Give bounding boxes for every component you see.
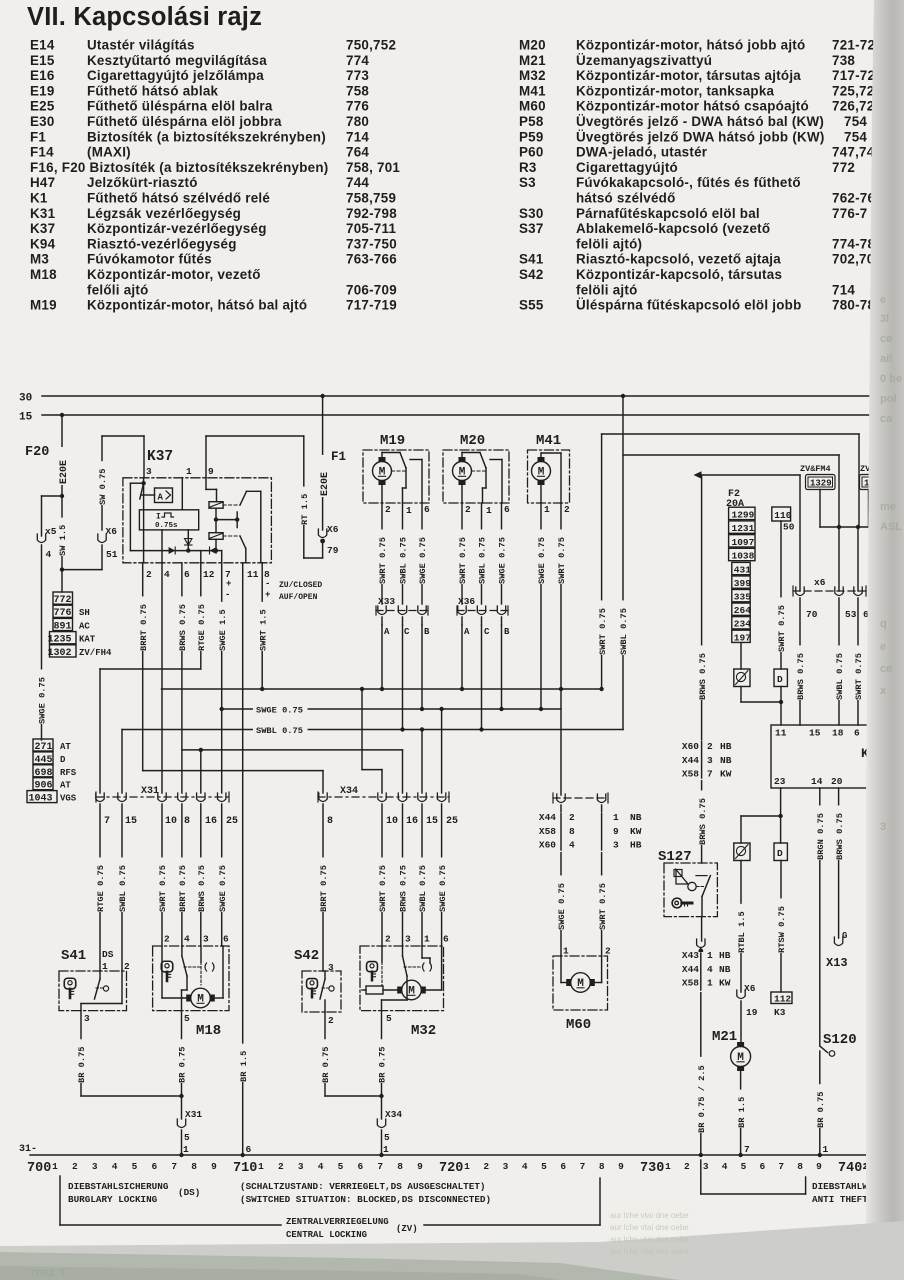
tailgate lock motor M60 — [553, 946, 611, 1034]
svg-text:E30: E30 — [30, 114, 55, 129]
wire link SWBL to K94 pin18 — [618, 396, 840, 730]
svg-text:SWGE 0.75: SWGE 0.75 — [256, 706, 303, 716]
svg-text:X34: X34 — [340, 786, 358, 797]
lock motor M19 — [363, 433, 429, 503]
svg-text:7: 7 — [580, 1161, 586, 1172]
svg-text:K1: K1 — [30, 191, 48, 206]
wire SWRT 0.75 X34 pin10 to M32 pin2 — [377, 804, 389, 946]
pin labels M20 — [465, 504, 510, 516]
svg-text:BRWS 0.75: BRWS 0.75 — [178, 604, 188, 651]
svg-text:8: 8 — [397, 1161, 403, 1172]
svg-text:K31: K31 — [30, 206, 56, 221]
riser X31 pin16 — [200, 750, 202, 793]
svg-text:H47: H47 — [30, 175, 55, 190]
wire SWGE 0.75 X31 pin25 to M18 pin6 — [216, 804, 228, 946]
svg-text:Légzsák vezérlőegység: Légzsák vezérlőegység — [87, 206, 241, 221]
wire X6-51 to K37 pin 3 — [97, 436, 145, 530]
svg-text:9: 9 — [208, 466, 214, 477]
svg-text:S37: S37 — [519, 221, 544, 236]
svg-text:BRWS 0.75: BRWS 0.75 — [796, 653, 806, 700]
svg-text:X58: X58 — [539, 826, 556, 837]
svg-text:112: 112 — [774, 994, 791, 1005]
svg-text:ZU/CLOSED: ZU/CLOSED — [279, 581, 322, 590]
svg-text:e: e — [880, 641, 886, 653]
svg-text:6: 6 — [223, 934, 229, 945]
svg-text:D: D — [777, 848, 783, 859]
svg-text:12: 12 — [203, 569, 215, 580]
switch S120 — [814, 1032, 856, 1155]
svg-text:3: 3 — [880, 821, 886, 833]
svg-text:DS: DS — [102, 949, 114, 960]
svg-text:(MAXI): (MAXI) — [87, 145, 131, 160]
wire SWRT 0.75 to M60 pin2 — [596, 875, 608, 930]
svg-text:714: 714 — [832, 282, 855, 297]
svg-text:felőli ajtó: felőli ajtó — [87, 282, 149, 297]
svg-text:Párnafűtéskapcsoló elöl bal: Párnafűtéskapcsoló elöl bal — [576, 206, 760, 221]
svg-text:DWA-jeladó, utastér: DWA-jeladó, utastér — [576, 145, 708, 160]
svg-text:S42: S42 — [519, 267, 544, 282]
fuel pump M21 — [712, 1029, 751, 1155]
svg-text:6: 6 — [560, 1161, 566, 1172]
svg-text:264: 264 — [734, 605, 751, 616]
svg-text:740: 740 — [838, 1161, 862, 1176]
bus 30 — [19, 393, 872, 405]
code box 112 K3 — [771, 992, 792, 1018]
svg-text:7: 7 — [744, 1144, 750, 1155]
svg-text:E20E: E20E — [59, 460, 70, 484]
svg-text:X58: X58 — [682, 978, 699, 989]
svg-text:M60: M60 — [566, 1017, 591, 1033]
svg-text:AUF/OPEN: AUF/OPEN — [279, 593, 318, 602]
junction line to X6 — [820, 525, 872, 591]
svg-text:RTGE 0.75: RTGE 0.75 — [197, 604, 207, 651]
svg-text:M21: M21 — [712, 1029, 737, 1045]
svg-text:750,752: 750,752 — [346, 38, 396, 53]
svg-text:1: 1 — [383, 1144, 389, 1155]
svg-text:B: B — [504, 627, 510, 637]
svg-text:7: 7 — [171, 1161, 177, 1172]
wire BR 0.75 M18 pin5 to X31 pin5 — [176, 1011, 202, 1158]
svg-text:Cigarettagyújtó jelzőlámpa: Cigarettagyújtó jelzőlámpa — [87, 68, 264, 83]
svg-text:Fűthető hátsó szélvédő relé: Fűthető hátsó szélvédő relé — [87, 191, 270, 206]
connector X34 — [318, 786, 458, 827]
svg-text:1: 1 — [823, 1144, 829, 1155]
svg-text:23: 23 — [774, 776, 786, 787]
svg-text:+: + — [265, 590, 270, 600]
svg-text:DIEBSTAHLW≈: DIEBSTAHLW≈ — [812, 1181, 874, 1192]
ghost print-through text right edge — [880, 294, 902, 833]
svg-text:763-766: 763-766 — [346, 252, 397, 267]
svg-text:5: 5 — [338, 1161, 344, 1172]
svg-text:774-78: 774-78 — [832, 236, 875, 251]
svg-text:3: 3 — [146, 466, 152, 477]
svg-text:3l: 3l — [880, 313, 889, 325]
svg-text:SW 0.75: SW 0.75 — [98, 469, 108, 506]
labels ZU/CLOSED AUF/OPEN — [225, 579, 322, 602]
svg-text:2: 2 — [124, 961, 130, 972]
svg-text:1: 1 — [406, 505, 412, 516]
svg-text:SWBL 0.75: SWBL 0.75 — [256, 726, 303, 736]
svg-text:SWGE 0.75: SWGE 0.75 — [557, 883, 567, 930]
svg-text:2: 2 — [465, 504, 471, 515]
ground rail 31 — [19, 1144, 904, 1157]
svg-text:F16, F20 Biztosíték (a biztosí: F16, F20 Biztosíték (a biztosítékszekrén… — [30, 160, 329, 175]
svg-text:3: 3 — [405, 934, 411, 945]
svg-text:CENTRAL LOCKING: CENTRAL LOCKING — [286, 1230, 367, 1240]
svg-text:RTGE 0.75: RTGE 0.75 — [96, 865, 106, 912]
svg-text:x5: x5 — [45, 526, 57, 537]
svg-text:754: 754 — [844, 129, 867, 144]
svg-text:BR 0.75: BR 0.75 — [378, 1047, 388, 1084]
svg-text:6: 6 — [854, 728, 860, 739]
svg-text:F1: F1 — [30, 129, 46, 144]
label switched situation — [240, 1181, 491, 1205]
diode box to M21 — [734, 843, 750, 861]
svg-text:Kesztyűtartó megvilágítása: Kesztyűtartó megvilágítása — [87, 53, 267, 68]
wire SWGE 0.75 X34 pin25 to M32 pin6 — [436, 804, 448, 946]
svg-text:717-72: 717-72 — [832, 68, 875, 83]
lock switch S42 passenger door — [294, 948, 341, 1026]
svg-text:3: 3 — [613, 840, 619, 851]
wire SWBL 0.75 M20 pin1 — [476, 503, 488, 604]
diode box D to K3 — [774, 843, 787, 861]
svg-text:754: 754 — [844, 114, 867, 129]
wire SWRT 1.5 K37 pin8 to SWRT node — [257, 563, 269, 689]
wire BRRT 0.75 X34 pin8 to S42 pin3 — [318, 804, 330, 971]
svg-text:6: 6 — [760, 1161, 766, 1172]
junction line SWBL 0.75 net — [122, 724, 623, 736]
svg-text:HB: HB — [630, 840, 642, 851]
svg-text:aur lche vtai dne oebe: aur lche vtai dne oebe — [610, 1235, 689, 1244]
svg-text:2: 2 — [328, 1015, 334, 1026]
svg-text:Üvegtörés jelző - DWA hátsó ba: Üvegtörés jelző - DWA hátsó bal (KW) — [576, 114, 824, 129]
svg-text:51: 51 — [106, 549, 118, 560]
svg-text:S55: S55 — [519, 298, 544, 313]
wire BRWS 0.75 X34 pin16 to M32 pin3 — [397, 804, 409, 946]
svg-text:VGS: VGS — [60, 794, 77, 804]
wire X36-A to SWRT line — [461, 625, 463, 689]
svg-text:9: 9 — [613, 826, 619, 837]
svg-text:KW: KW — [630, 826, 642, 837]
svg-text:6: 6 — [184, 569, 190, 580]
svg-text:Központizár-motor, hátsó jobb: Központizár-motor, hátsó jobb ajtó — [576, 38, 805, 53]
wire SWRT 0.75 X6-64 to K94 pin6 — [853, 598, 865, 725]
svg-text:SWGE 0.75: SWGE 0.75 — [498, 537, 508, 584]
svg-text:Üvegtörés jelző DWA hátsó jobb: Üvegtörés jelző DWA hátsó jobb (KW) — [576, 129, 825, 144]
code box stack 271/445/698/906/1043 — [27, 739, 77, 805]
svg-text:11: 11 — [775, 728, 787, 739]
svg-text:764: 764 — [346, 145, 369, 160]
svg-text:aur lche vtai dne oebe: aur lche vtai dne oebe — [610, 1247, 689, 1256]
svg-text:VII. Kapcsolási rajz: VII. Kapcsolási rajz — [27, 3, 262, 31]
svg-text:1043: 1043 — [28, 794, 52, 805]
svg-text:25: 25 — [226, 816, 238, 827]
svg-text:BRWS 0.75: BRWS 0.75 — [835, 813, 845, 860]
svg-text:M32: M32 — [411, 1023, 436, 1039]
wire BRRT 0.75 X31 pin8 to M18 pin4 — [176, 804, 188, 946]
svg-text:BRRT 0.75: BRRT 0.75 — [319, 865, 329, 912]
svg-text:4: 4 — [184, 934, 190, 945]
svg-text:SW 1.5: SW 1.5 — [58, 525, 68, 556]
wire SWRT 0.75 M41 pin2 to M60 — [556, 503, 568, 795]
svg-text:4: 4 — [164, 569, 170, 580]
svg-text:KW: KW — [719, 978, 731, 989]
svg-text:1231: 1231 — [732, 523, 755, 534]
wire SWBL line to X31 pin15 — [121, 730, 123, 794]
svg-text:30: 30 — [19, 393, 32, 405]
svg-text:3: 3 — [92, 1161, 98, 1172]
svg-text:F1: F1 — [331, 450, 346, 464]
svg-text:1: 1 — [707, 978, 713, 989]
svg-text:Központizár-motor, társutas aj: Központizár-motor, társutas ajtója — [576, 68, 801, 83]
alarm control unit K94 — [771, 725, 877, 788]
svg-text:E16: E16 — [30, 68, 55, 83]
svg-text:7: 7 — [104, 816, 110, 827]
wire SWRT 0.75 M20 pin2 — [457, 503, 469, 604]
svg-text:5: 5 — [384, 1132, 390, 1143]
wire BRGN 0.75 K94 pin14 to S120 — [814, 788, 826, 1046]
svg-text:3: 3 — [703, 1161, 709, 1172]
svg-text:Fűthető üléspárna elöl balra: Fűthető üléspárna elöl balra — [87, 99, 273, 114]
svg-text:762-76: 762-76 — [832, 191, 875, 206]
svg-text:ail: ail — [880, 353, 892, 365]
wire BR 0.75 M32 pin5 to X34 pin5 — [376, 1011, 402, 1158]
wire BRWS 0.75 X31 pin16 to M18 pin3 — [195, 804, 207, 946]
svg-text:6: 6 — [358, 1161, 364, 1172]
svg-text:q: q — [880, 618, 887, 630]
svg-text:X44: X44 — [682, 964, 699, 975]
svg-text:772: 772 — [832, 160, 855, 175]
svg-text:ca: ca — [880, 413, 893, 425]
svg-text:2: 2 — [385, 504, 391, 515]
svg-text:RTSW 0.75: RTSW 0.75 — [777, 906, 787, 953]
svg-text:ce: ce — [880, 663, 892, 675]
svg-text:4: 4 — [707, 964, 713, 975]
svg-text:15: 15 — [809, 728, 821, 739]
svg-text:70: 70 — [806, 609, 818, 620]
connector X36 — [457, 596, 510, 637]
connector X44/X58/X60 to M60 — [537, 793, 642, 956]
svg-text:Fűthető hátsó ablak: Fűthető hátsó ablak — [87, 83, 219, 98]
svg-text:Biztosíték (a biztosítékszekré: Biztosíték (a biztosítékszekrényben) — [87, 129, 326, 144]
svg-text:SWRT 0.75: SWRT 0.75 — [378, 537, 388, 584]
svg-text:738: 738 — [832, 53, 855, 68]
svg-text:felöli ajtó): felöli ajtó) — [576, 236, 642, 251]
svg-text:S41: S41 — [519, 252, 544, 267]
svg-text:M3: M3 — [30, 252, 49, 267]
svg-text:2: 2 — [146, 569, 152, 580]
svg-text:702,70: 702,70 — [832, 252, 874, 267]
svg-text:776: 776 — [346, 99, 369, 114]
svg-text:431: 431 — [734, 565, 751, 576]
svg-text:X31: X31 — [185, 1109, 202, 1120]
svg-text:110: 110 — [774, 510, 791, 521]
tank flap motor M41 — [528, 433, 570, 503]
svg-text:5: 5 — [541, 1161, 547, 1172]
svg-text:X44: X44 — [682, 755, 699, 766]
svg-text:M21: M21 — [519, 53, 546, 68]
wire link SWRT to K94 pin6 — [596, 434, 859, 689]
svg-text:1: 1 — [52, 1161, 58, 1172]
svg-text:774: 774 — [346, 53, 369, 68]
svg-text:3: 3 — [503, 1161, 509, 1172]
svg-text:BRWS 0.75: BRWS 0.75 — [698, 798, 708, 845]
svg-text:A: A — [464, 627, 470, 637]
svg-text:HB: HB — [719, 950, 731, 961]
svg-text:8: 8 — [569, 826, 575, 837]
svg-text:Utastér világítás: Utastér világítás — [87, 38, 195, 53]
svg-text:2: 2 — [684, 1161, 690, 1172]
svg-text:5: 5 — [184, 1132, 190, 1143]
svg-text:TC02 T: TC02 T — [30, 1269, 66, 1280]
svg-text:1: 1 — [464, 1161, 470, 1172]
svg-text:4: 4 — [569, 840, 575, 851]
svg-text:B: B — [424, 627, 430, 637]
svg-text:730: 730 — [640, 1161, 664, 1176]
svg-text:5: 5 — [132, 1161, 138, 1172]
svg-text:SWGE 0.75: SWGE 0.75 — [418, 537, 428, 584]
svg-text:20: 20 — [831, 776, 843, 787]
label bracket central locking ZV — [60, 1178, 600, 1240]
svg-text:KW: KW — [720, 769, 732, 780]
svg-text:2: 2 — [564, 504, 570, 515]
svg-text:8: 8 — [191, 1161, 197, 1172]
lock motor M20 — [443, 433, 509, 503]
node bus15-F20 — [60, 413, 64, 417]
svg-text:891: 891 — [53, 621, 71, 632]
svg-text:Fúvókakapcsoló-, fűtés és fűth: Fúvókakapcsoló-, fűtés és fűthető — [576, 175, 801, 190]
svg-text:M18: M18 — [30, 267, 57, 282]
svg-text:x: x — [880, 685, 887, 697]
svg-text:RFS: RFS — [60, 768, 77, 778]
svg-text:720: 720 — [439, 1161, 463, 1176]
svg-text:X13: X13 — [826, 956, 848, 970]
wire RTGE 0.75 X31 pin7 to S41 pin1 — [95, 804, 107, 971]
svg-text:X31: X31 — [141, 786, 159, 797]
code box ZV 13.. — [860, 464, 880, 527]
svg-text:ZV&FM4: ZV&FM4 — [800, 464, 831, 474]
svg-text:6: 6 — [424, 504, 430, 515]
wire SWBL 0.75 X6-53 to K94 pin18 — [834, 598, 846, 725]
svg-text:X34: X34 — [385, 1109, 402, 1120]
svg-text:1097: 1097 — [732, 537, 755, 548]
svg-text:AT: AT — [60, 781, 71, 791]
wire SWGE 0.75 M20 pin6 — [496, 503, 508, 604]
svg-text:3: 3 — [298, 1161, 304, 1172]
svg-text:NB: NB — [720, 755, 732, 766]
page bottom greenish band left — [0, 1252, 680, 1280]
svg-text:F20: F20 — [25, 445, 49, 460]
svg-text:SWGE 0.75: SWGE 0.75 — [218, 865, 228, 912]
svg-text:710: 710 — [233, 1161, 257, 1176]
svg-text:ANTI THEFT: ANTI THEFT — [812, 1194, 868, 1205]
svg-text:399: 399 — [734, 578, 751, 589]
svg-text:-: - — [265, 579, 270, 589]
svg-text:BRGN 0.75: BRGN 0.75 — [816, 813, 826, 860]
label bracket anti theft — [701, 1160, 874, 1205]
svg-text:758, 701: 758, 701 — [346, 160, 400, 175]
wire BRWS 0.75 to S127 with arrow — [694, 471, 801, 863]
svg-text:9: 9 — [618, 1161, 624, 1172]
svg-text:SWBL 0.75: SWBL 0.75 — [418, 865, 428, 912]
svg-text:SH: SH — [79, 608, 90, 618]
wire BRWS 0.75 K37 pin6 to X31 pin8 — [176, 563, 188, 793]
wire RTSW 0.75 to K3 — [776, 861, 788, 993]
svg-text:53: 53 — [845, 609, 857, 620]
svg-text:1: 1 — [563, 946, 569, 957]
svg-text:9: 9 — [211, 1161, 217, 1172]
svg-text:725,72: 725,72 — [832, 83, 874, 98]
svg-text:me: me — [880, 501, 896, 513]
wire F20 to X5 — [42, 495, 63, 497]
wire K37 pin4 to X31 pin10 — [161, 563, 163, 793]
junction line SWRT net — [162, 687, 604, 691]
svg-text:X60: X60 — [682, 741, 699, 752]
svg-text:AT: AT — [60, 742, 71, 752]
svg-text:744: 744 — [346, 175, 369, 190]
svg-text:9: 9 — [417, 1161, 423, 1172]
pin labels M19 — [385, 504, 430, 516]
wire SWBL 0.75 X34 pin15 to M32 pin1 — [417, 804, 429, 946]
wire X33-B to SWGE line — [421, 625, 423, 709]
bus 15 — [19, 412, 872, 424]
svg-text:2: 2 — [278, 1161, 284, 1172]
svg-text:773: 773 — [346, 68, 369, 83]
page bottom edge light wedge — [0, 1221, 904, 1280]
svg-text:705-711: 705-711 — [346, 221, 396, 236]
svg-text:335: 335 — [734, 592, 751, 603]
svg-text:Riasztó-kapcsoló, vezető ajtaj: Riasztó-kapcsoló, vezető ajtaja — [576, 252, 781, 267]
connector X6 pins 70/53/64 — [793, 577, 875, 620]
svg-text:14: 14 — [811, 776, 823, 787]
svg-text:2: 2 — [72, 1161, 78, 1172]
svg-text:SWBL 0.75: SWBL 0.75 — [619, 608, 629, 655]
wire SWGE 0.75 to M60 pin1 — [556, 875, 568, 930]
svg-text:X58: X58 — [682, 769, 699, 780]
svg-text:2: 2 — [605, 946, 611, 957]
svg-text:1: 1 — [613, 812, 619, 823]
svg-text:S120: S120 — [823, 1032, 857, 1048]
svg-text:SWBL 0.75: SWBL 0.75 — [478, 537, 488, 584]
svg-text:SWBL 0.75: SWBL 0.75 — [835, 653, 845, 700]
svg-text:D: D — [777, 674, 783, 685]
svg-text:BRRT 0.75: BRRT 0.75 — [178, 865, 188, 912]
svg-text:C: C — [404, 627, 410, 637]
svg-text:P60: P60 — [519, 145, 544, 160]
wire K94 pin23 node — [741, 788, 783, 843]
svg-text:BR 0.75 / 2.5: BR 0.75 / 2.5 — [697, 1065, 707, 1133]
svg-text:717-719: 717-719 — [346, 298, 397, 313]
svg-text:721-72: 721-72 — [832, 38, 875, 53]
wire RT 1.5 from K37 pin 9 — [206, 436, 323, 558]
svg-text:0 be: 0 be — [880, 373, 902, 385]
svg-text:SWRT 0.75: SWRT 0.75 — [458, 537, 468, 584]
svg-text:BRWS 0.75: BRWS 0.75 — [698, 653, 708, 700]
svg-text:M19: M19 — [380, 433, 405, 449]
wire BRWS 0.75 K94 pin20 to X13 — [826, 788, 848, 970]
svg-text:(SWITCHED SITUATION: BLOCKED,D: (SWITCHED SITUATION: BLOCKED,DS DISCONNE… — [240, 1194, 491, 1205]
svg-text:5: 5 — [741, 1161, 747, 1172]
ghost text in bottom right gray — [610, 1211, 689, 1256]
svg-text:M20: M20 — [519, 38, 546, 53]
svg-text:S30: S30 — [519, 206, 544, 221]
svg-text:aur lche vtai dne oebe: aur lche vtai dne oebe — [610, 1223, 689, 1232]
svg-text:Riasztó-vezérlőegység: Riasztó-vezérlőegység — [87, 236, 237, 251]
svg-text:K37: K37 — [147, 449, 173, 465]
svg-text:S3: S3 — [519, 175, 536, 190]
svg-text:P59: P59 — [519, 129, 544, 144]
svg-text:X6: X6 — [327, 524, 339, 535]
